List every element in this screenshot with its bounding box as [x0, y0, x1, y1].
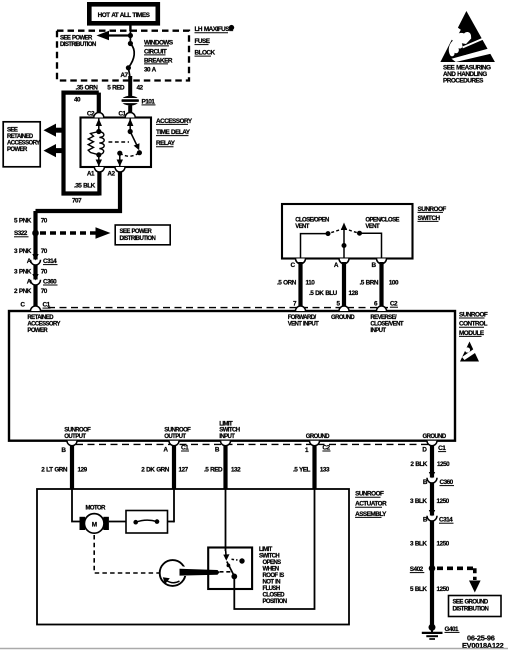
svg-text:CLOSE/OPEN: CLOSE/OPEN — [295, 218, 329, 224]
relay coil (C2 side) — [88, 118, 104, 167]
svg-text:HOT AT ALL TIMES: HOT AT ALL TIMES — [98, 12, 151, 19]
svg-text:1250: 1250 — [437, 586, 450, 593]
svg-text:INPUT: INPUT — [219, 434, 235, 440]
svg-text:POWER: POWER — [7, 147, 28, 153]
svg-text:C314: C314 — [439, 517, 453, 524]
arrow to retained accessory power (upper) — [44, 124, 66, 137]
svg-text:MOTOR: MOTOR — [86, 506, 107, 512]
wire limit switch to .5 YEL — [234, 489, 314, 609]
svg-text:ACCESSORY: ACCESSORY — [156, 118, 193, 125]
pin A of switch — [339, 259, 349, 264]
svg-text:.5 ORN: .5 ORN — [277, 280, 297, 287]
pin 1 / C2 at module bottom — [310, 441, 320, 446]
svg-text:S322: S322 — [14, 230, 28, 237]
svg-text:FORWARD/: FORWARD/ — [288, 315, 317, 321]
wire to pin B — [360, 233, 382, 258]
svg-text:DISTRIBUTION: DISTRIBUTION — [453, 606, 489, 612]
dashed arrow to see ground distribution — [437, 568, 481, 592]
dashed arrow to see power distribution — [40, 227, 111, 239]
svg-text:ACTUATOR: ACTUATOR — [355, 501, 387, 508]
fuse block dashed box — [57, 31, 189, 81]
svg-text:ROOF IS: ROOF IS — [263, 573, 285, 579]
wire 5 RED 42 — [128, 76, 132, 97]
dashed mechanical link from motor — [94, 535, 159, 573]
connector C360 (pin B) — [423, 472, 454, 486]
pin C1 of relay — [125, 113, 135, 118]
wire .5 RED 132 — [223, 446, 227, 489]
connector dashed line at module bottom — [76, 443, 428, 445]
svg-text:2 DK GRN: 2 DK GRN — [141, 467, 169, 474]
svg-text:CIRCUIT: CIRCUIT — [144, 48, 167, 55]
sunroof control module box — [9, 311, 455, 441]
see ground distribution box — [449, 596, 502, 617]
svg-text:.5 BRN: .5 BRN — [360, 280, 379, 287]
clutch switch box — [126, 511, 168, 534]
small ESD triangle symbol — [460, 342, 479, 362]
svg-text:LH MAXIFUSE: LH MAXIFUSE — [195, 26, 234, 33]
svg-text:3 BLK: 3 BLK — [410, 498, 427, 505]
svg-text:SWITCH: SWITCH — [259, 553, 279, 559]
svg-text:SUNROOF: SUNROOF — [164, 428, 191, 434]
ESD handling symbol — [440, 11, 495, 85]
pin C / C1 at module — [20, 302, 50, 309]
svg-text:S402: S402 — [410, 566, 424, 573]
svg-text:PROCEDURES: PROCEDURES — [443, 78, 484, 85]
relay label — [156, 118, 193, 147]
svg-text:FLUSH: FLUSH — [263, 586, 280, 592]
svg-text:SEE: SEE — [7, 128, 18, 134]
svg-text:A1: A1 — [87, 171, 95, 178]
svg-text:5 PNK: 5 PNK — [14, 218, 32, 225]
svg-text:VENT INPUT: VENT INPUT — [288, 321, 319, 327]
svg-text:RELAY: RELAY — [156, 140, 176, 147]
sunroof actuator assembly label — [355, 491, 387, 518]
svg-text:SUNROOF: SUNROOF — [355, 491, 384, 498]
label LH MAXIFUSE / fuse block — [195, 25, 235, 57]
svg-text:2 BLK: 2 BLK — [410, 461, 427, 468]
svg-text:C360: C360 — [43, 278, 57, 285]
pin A1 of relay — [94, 167, 104, 172]
svg-text:CLOSE/VENT: CLOSE/VENT — [370, 321, 403, 327]
cam wheel — [160, 560, 189, 586]
svg-text:1250: 1250 — [437, 461, 450, 468]
svg-text:CONTROL: CONTROL — [459, 321, 488, 328]
svg-text:TIME DELAY: TIME DELAY — [156, 129, 191, 136]
arrow to retained accessory power (lower) — [44, 144, 66, 157]
pin 6 / C2 at module top — [377, 306, 387, 311]
svg-text:30 A: 30 A — [144, 66, 157, 73]
svg-text:GROUND: GROUND — [306, 434, 330, 440]
wire clutch to 2 DK GRN — [168, 521, 175, 523]
svg-text:SUNROOF: SUNROOF — [64, 428, 91, 434]
svg-text:C1: C1 — [118, 110, 126, 117]
ground G401 — [422, 624, 460, 639]
wire 2 DK GRN 127 — [172, 446, 176, 489]
wire .5 YEL 133 — [312, 446, 316, 489]
limit switch box — [208, 548, 252, 590]
svg-text:100: 100 — [389, 280, 399, 287]
svg-text:C2: C2 — [322, 444, 330, 451]
svg-text:1250: 1250 — [437, 541, 450, 548]
wire 2 BLK 1250 — [430, 446, 434, 478]
splice S322 — [14, 230, 39, 238]
svg-text:2 LT GRN: 2 LT GRN — [41, 467, 68, 474]
wire .5 RED into limit switch — [225, 489, 227, 551]
svg-text:1250: 1250 — [437, 498, 450, 505]
bottom page rule — [0, 648, 508, 650]
connector C360 (pin A) — [27, 274, 58, 285]
wire from hot box to fuse block — [129, 26, 131, 32]
svg-text:C2: C2 — [390, 301, 398, 308]
svg-text:BREAKER: BREAKER — [144, 57, 173, 64]
wire A1 down to .35 BLK — [97, 172, 101, 196]
svg-text:VENT: VENT — [295, 224, 310, 230]
accessory time delay relay box — [81, 118, 152, 168]
svg-text:WHEN: WHEN — [263, 566, 279, 572]
svg-text:LIMIT: LIMIT — [259, 547, 273, 553]
svg-text:POSITION: POSITION — [263, 599, 287, 605]
svg-text:2 PNK: 2 PNK — [14, 288, 32, 295]
svg-text:ASSEMBLY: ASSEMBLY — [355, 511, 387, 518]
connector C314 (pin A) — [27, 254, 58, 265]
see power distribution box — [115, 225, 170, 245]
pin 7 at module top — [296, 306, 306, 311]
svg-text:707: 707 — [72, 198, 82, 205]
svg-text:SUNROOF: SUNROOF — [418, 206, 447, 213]
svg-text:VENT: VENT — [365, 224, 380, 230]
svg-text:128: 128 — [349, 290, 359, 297]
hot at all times box — [89, 4, 158, 23]
svg-text:.5 YEL: .5 YEL — [293, 467, 311, 474]
svg-text:P101: P101 — [142, 98, 156, 105]
pin C1-C at module top — [31, 306, 41, 311]
svg-text:C2: C2 — [87, 110, 95, 117]
sunroof control module label — [459, 311, 488, 336]
svg-text:70: 70 — [41, 248, 48, 255]
switch contacts — [326, 223, 363, 249]
svg-text:M: M — [92, 521, 97, 528]
svg-text:REVERSE/: REVERSE/ — [370, 315, 397, 321]
pin B at module bottom — [67, 441, 77, 446]
svg-text:OUTPUT: OUTPUT — [64, 434, 86, 440]
pin D / C1 at module bottom right — [427, 441, 437, 446]
see power distribution arrow (in fuse block) — [60, 31, 130, 48]
limit switch note text — [259, 547, 287, 605]
svg-text:CLOSED: CLOSED — [263, 592, 286, 598]
svg-text:110: 110 — [306, 280, 316, 287]
wire .5 ORN 110 — [298, 262, 302, 307]
pin 5 at module top — [339, 306, 349, 311]
pin C2 of relay — [94, 113, 104, 118]
wire .5 BRN 100 — [379, 262, 383, 307]
svg-text:SWITCH: SWITCH — [219, 428, 239, 434]
svg-text:70: 70 — [41, 288, 48, 295]
svg-text:ACCESSORY: ACCESSORY — [27, 321, 60, 327]
wire .35 BLK 707 — [62, 191, 100, 195]
svg-text:42: 42 — [137, 85, 144, 92]
svg-text:NOT IN: NOT IN — [263, 579, 281, 585]
svg-text:132: 132 — [231, 467, 241, 474]
wire .5 DK BLU 128 — [342, 262, 346, 307]
pin C of switch — [296, 259, 306, 264]
svg-text:INPUT: INPUT — [370, 328, 386, 334]
svg-text:SUNROOF: SUNROOF — [459, 311, 488, 318]
svg-text:SEE POWER: SEE POWER — [120, 229, 153, 235]
sunroof switch box — [282, 204, 413, 259]
wire motor to clutch switch — [109, 521, 126, 523]
svg-text:3 BLK: 3 BLK — [410, 541, 427, 548]
wire to pin C — [301, 234, 329, 259]
svg-text:DISTRIBUTION: DISTRIBUTION — [120, 236, 156, 242]
svg-text:.5 DK BLU: .5 DK BLU — [309, 290, 338, 297]
pin A / C1 at module bottom — [169, 441, 179, 446]
svg-text:SEE GROUND: SEE GROUND — [453, 600, 489, 606]
svg-text:OPENS: OPENS — [263, 560, 282, 566]
svg-text:G401: G401 — [445, 626, 460, 633]
wire 5 BLK 1250 — [430, 568, 434, 627]
svg-text:GROUND: GROUND — [331, 315, 355, 321]
svg-text:5 BLK: 5 BLK — [410, 586, 427, 593]
wire into motor — [72, 489, 80, 522]
svg-text:POWER: POWER — [27, 328, 48, 334]
sunroof switch label — [418, 206, 447, 222]
svg-text:133: 133 — [320, 467, 330, 474]
pin B of switch — [377, 259, 387, 264]
svg-text:5 RED: 5 RED — [107, 85, 125, 92]
svg-text:3 PNK: 3 PNK — [14, 268, 32, 275]
svg-text:C1: C1 — [438, 445, 446, 452]
pin B (limit switch) at module bottom — [221, 441, 231, 446]
svg-text:BLOCK: BLOCK — [195, 50, 216, 57]
splice S402 — [410, 565, 436, 573]
svg-text:RETAINED: RETAINED — [27, 315, 54, 321]
wire 2 LT GRN 129 — [70, 446, 74, 489]
svg-text:A7: A7 — [120, 72, 128, 79]
wire A2 down (5 PNK) — [118, 172, 122, 213]
wire to pin A — [343, 246, 345, 259]
svg-text:ACCESSORY: ACCESSORY — [7, 141, 40, 147]
svg-text:C314: C314 — [43, 258, 57, 265]
svg-text:RETAINED: RETAINED — [7, 134, 34, 140]
connector C314 (pin B) — [423, 510, 454, 524]
connector P101 — [122, 96, 156, 106]
svg-text:GROUND: GROUND — [423, 434, 447, 440]
pin A2 of relay — [115, 167, 125, 172]
svg-text:LIMIT: LIMIT — [219, 421, 233, 427]
svg-text:127: 127 — [179, 467, 189, 474]
svg-text:129: 129 — [78, 467, 88, 474]
svg-text:MODULE: MODULE — [459, 330, 485, 337]
sunroof actuator assembly box — [37, 489, 349, 625]
svg-text:.35 BLK: .35 BLK — [74, 183, 96, 190]
cam follower bar — [180, 569, 220, 576]
svg-text:A2: A2 — [107, 171, 115, 178]
svg-text:C360: C360 — [440, 479, 454, 486]
circuit breaker (windows circuit breaker 30 A) — [126, 39, 174, 73]
svg-text:FUSE: FUSE — [195, 38, 211, 45]
connector dashed line at module top — [48, 307, 388, 309]
svg-text:70: 70 — [41, 218, 48, 225]
limit switch contacts — [223, 551, 244, 579]
node: junction on feed wire — [129, 31, 131, 43]
svg-text:.5 RED: .5 RED — [204, 467, 223, 474]
svg-text:70: 70 — [41, 268, 48, 275]
svg-text:3 PNK: 3 PNK — [14, 248, 32, 255]
svg-text:C1: C1 — [181, 444, 189, 451]
svg-text:DISTRIBUTION: DISTRIBUTION — [60, 42, 96, 48]
wire left vertical loop — [61, 91, 65, 196]
motor M — [80, 506, 109, 534]
svg-text:OUTPUT: OUTPUT — [164, 434, 186, 440]
svg-text:40: 40 — [74, 97, 81, 104]
svg-text:SWITCH: SWITCH — [418, 215, 441, 222]
svg-text:OPEN/CLOSE: OPEN/CLOSE — [365, 218, 399, 224]
svg-text:SEE POWER: SEE POWER — [60, 35, 93, 41]
see retained accessory power box — [3, 122, 40, 167]
svg-text:WINDOWS: WINDOWS — [144, 39, 174, 46]
relay switch (C1 side) — [109, 118, 142, 167]
